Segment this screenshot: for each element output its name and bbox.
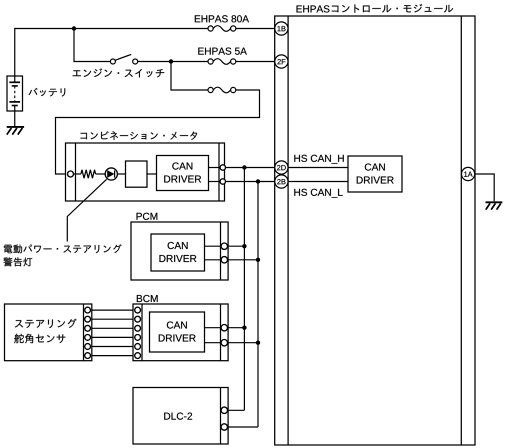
label EHPAS control module (JP part) [332, 4, 453, 13]
BCM pin 6 [135, 353, 141, 359]
wire sensor pin 6 to BCM pin 6 [92, 355, 133, 357]
wire battery positive to fuse F1 [15, 29, 208, 77]
fuse F1 EHPAS 80A [208, 26, 236, 32]
wire PCM CAN driver to pin (L) [205, 259, 222, 261]
wire BCM CAN driver to pin (H) [205, 327, 222, 329]
BCM pin 4 [135, 335, 141, 341]
junction CAN_L at BCM [256, 341, 260, 345]
wire battery negative to ground [14, 111, 16, 127]
wire BCM to CAN_L bus [228, 342, 259, 344]
sensor pin 2 [85, 316, 91, 322]
junction CAN_H at PCM [242, 244, 246, 248]
EHPAS control module box U1 [275, 16, 475, 445]
wire fuse F3 to combination meter [56, 90, 260, 174]
meter CAN driver U2 [157, 156, 209, 191]
pin label 2B [277, 179, 285, 184]
sensor connector inner line [83, 304, 85, 361]
lamp driver box [126, 161, 148, 187]
sensor pin 5 [85, 344, 91, 350]
PCM box [131, 222, 228, 280]
sensor pin 6 [85, 353, 91, 359]
wire PCM to CAN_L bus [228, 259, 259, 261]
BCM pin CAN_L [221, 340, 227, 346]
label BCM [137, 295, 158, 302]
label fuse F2 EHPAS 5A [198, 48, 247, 55]
wire switch to fuse F2 [138, 61, 208, 63]
label electric power steering (line 1) [4, 244, 122, 253]
wire lamp to driver stage [117, 173, 125, 175]
pin label 2F [277, 59, 285, 64]
combination meter box [66, 143, 225, 201]
BCM box [133, 304, 228, 361]
DLC-2 pin CAN_H [221, 407, 227, 413]
pin 2F [275, 55, 288, 68]
sensor pin 4 [85, 335, 91, 341]
label DLC-2 [164, 413, 192, 420]
fuse F2 EHPAS 5A [208, 59, 236, 65]
wire meter to pin 2D (HS CAN_H) [226, 167, 275, 169]
wire pin 2D to EHPAS CAN driver [288, 167, 348, 169]
PCM pin CAN_L [221, 257, 227, 263]
EHPAS CAN driver U3 label CAN [365, 163, 385, 170]
wire DLC-2 to CAN_H bus [228, 409, 245, 411]
PCM CAN driver U4 [151, 234, 205, 271]
junction CAN_L at PCM [256, 258, 260, 262]
wire BCM to CAN_H bus [228, 327, 245, 329]
junction CAN_L bus tap at meter [256, 179, 260, 183]
label combination meter [81, 131, 198, 140]
meter CAN driver U2 label CAN [172, 162, 192, 169]
label fuse F1 EHPAS 80A [195, 15, 249, 22]
wire sensor pin 4 to BCM pin 4 [92, 336, 133, 338]
ground battery [7, 127, 24, 135]
fuse F3 [208, 87, 236, 93]
EHPAS CAN driver U3 [348, 156, 402, 192]
pin 1A [462, 167, 475, 180]
label angle sensor (line 2) [14, 334, 65, 344]
meter CAN driver U2 label DRIVER [164, 176, 201, 183]
DLC-2 pin CAN_L [221, 424, 227, 430]
label EHPAS control module (latin part) [297, 5, 330, 12]
wire sensor pin 2 to BCM pin 2 [92, 318, 133, 320]
label HS CAN_H net [294, 155, 343, 164]
sensor pin 1 [85, 307, 91, 313]
BCM pin 3 [135, 325, 141, 331]
wire junction to engine switch [74, 29, 110, 62]
BCM left connector inner line [141, 304, 143, 361]
label steering (line 1) [15, 319, 77, 328]
label PCM [137, 213, 158, 220]
PCM CAN driver U4 label CAN [168, 242, 188, 249]
BCM right connector inner line [220, 304, 222, 361]
steering angle sensor box [5, 304, 92, 361]
junction switch output node [169, 59, 173, 63]
PCM connector inner line [220, 222, 222, 280]
meter pin CAN_L [220, 179, 225, 184]
wire junction to fuse F3 [171, 62, 208, 91]
engine switch S1 [110, 54, 137, 64]
wire driver stage to CAN driver [147, 173, 157, 175]
wire pin 2B to EHPAS CAN driver [288, 181, 348, 183]
PCM CAN driver U4 label DRIVER [159, 255, 196, 262]
junction CAN_H bus tap at meter [242, 165, 246, 169]
warning lamp (LED) [105, 168, 117, 180]
EHPAS module left connector inner line [287, 16, 289, 445]
wire pin 1A to ground [475, 174, 494, 201]
wire CAN_H bus vertical [243, 168, 245, 411]
wire meter CAN driver to pin CAN_H [209, 167, 221, 169]
wire meter CAN driver to pin CAN_L [209, 181, 221, 183]
pin label 2D [277, 165, 286, 170]
wire fuse F2 to pin 2F [236, 61, 275, 63]
pin 2B [275, 175, 288, 188]
leader line warning lamp label [67, 179, 106, 241]
wire CAN_L bus vertical [257, 182, 259, 428]
ground EHPAS module [486, 202, 503, 209]
BCM pin 2 [135, 316, 141, 322]
junction battery/switch node [72, 26, 76, 30]
wire sensor pin 5 to BCM pin 5 [92, 346, 133, 348]
resistor R1 [81, 170, 96, 178]
EHPAS CAN driver U3 label DRIVER [357, 177, 394, 184]
wire sensor pin 1 to BCM pin 1 [92, 309, 133, 311]
BCM CAN driver U5 label DRIVER [159, 335, 196, 342]
battery B1 [7, 76, 23, 111]
pin 1B [275, 22, 288, 35]
wire BCM CAN driver to pin (L) [205, 342, 222, 344]
wire DLC-2 to CAN_L bus [228, 426, 259, 428]
wire PCM CAN driver to pin (H) [205, 245, 222, 247]
wire meter pin to resistor [74, 173, 81, 175]
meter left connector inner line [75, 143, 77, 201]
label HS CAN_L net [294, 189, 342, 198]
junction CAN_H at BCM [242, 326, 246, 330]
DLC-2 connector inner line [220, 388, 222, 445]
BCM CAN driver U5 [150, 312, 205, 352]
meter pin CAN_H [220, 165, 225, 170]
pin label 1B [277, 26, 285, 31]
meter right connector inner line [218, 143, 220, 201]
PCM pin CAN_H [221, 243, 227, 249]
pin 2D [275, 161, 288, 174]
DLC-2 box [133, 388, 228, 445]
wire PCM to CAN_H bus [228, 245, 245, 247]
sensor pin 3 [85, 325, 91, 331]
wire sensor pin 3 to BCM pin 3 [92, 327, 133, 329]
BCM CAN driver U5 label CAN [167, 321, 187, 328]
BCM pin 1 [135, 307, 141, 313]
label battery [29, 88, 66, 97]
BCM pin 5 [135, 344, 141, 350]
wire resistor to warning lamp [96, 173, 106, 175]
meter pin input [68, 171, 74, 177]
wire meter to pin 2B (HS CAN_L) [226, 181, 275, 183]
wire fuse F1 to pin 1B [236, 28, 275, 30]
label engine switch [73, 68, 165, 77]
pin label 1A [464, 172, 472, 177]
BCM pin CAN_H [221, 325, 227, 331]
label warning lamp (line 2) [3, 257, 32, 266]
EHPAS module right connector inner line [460, 16, 462, 445]
